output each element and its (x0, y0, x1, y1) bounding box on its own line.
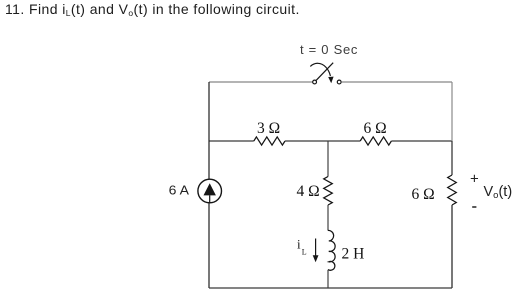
svg-text:i: i (297, 237, 301, 252)
switch S1 (310, 63, 341, 84)
svg-text:3 Ω: 3 Ω (257, 120, 280, 137)
wire left vertical lower (208, 203, 210, 288)
label 3 ohm (257, 120, 280, 137)
svg-text:L: L (302, 248, 307, 257)
resistor R2 6ohm (360, 137, 391, 145)
wire right vertical lower (451, 205, 453, 288)
svg-text:6 Ω: 6 Ω (364, 120, 387, 137)
label 2 H (342, 245, 365, 262)
wire middle vertical lower (327, 270, 329, 288)
wire bottom (209, 287, 452, 289)
switch blade (316, 63, 333, 81)
resistor R1 3ohm (254, 137, 285, 145)
svg-text:6 A: 6 A (169, 183, 190, 198)
svg-text:t = 0 Sec: t = 0 Sec (300, 42, 358, 57)
resistor R3 4ohm (324, 177, 333, 206)
label iL (297, 237, 307, 257)
label Vo(t) (484, 184, 513, 201)
wire second row middle (285, 140, 360, 142)
wire top-left segment (209, 81, 313, 83)
svg-text:11. Find iL(t) and Vo(t) in th: 11. Find iL(t) and Vo(t) in the followin… (5, 1, 300, 18)
label 4 ohm (297, 183, 320, 200)
switch left contact (313, 80, 317, 84)
label 6 ohm right (412, 186, 435, 203)
label minus sign (472, 206, 476, 208)
label 6 ohm top (364, 120, 387, 137)
switch right contact (337, 80, 341, 84)
wire middle vertical upper (327, 141, 329, 177)
wire middle vertical between resistor and inductor (327, 205, 329, 230)
switch closing arc arrow (310, 63, 330, 76)
wire right vertical upper (451, 82, 453, 175)
resistor R4 6ohm (448, 175, 457, 205)
label 6 A (169, 183, 190, 198)
current source I1 (198, 179, 222, 203)
wire top-right segment (341, 81, 452, 83)
svg-text:2 H: 2 H (342, 245, 365, 262)
svg-text:Vo(t): Vo(t) (484, 184, 513, 201)
current arrow iL (313, 239, 319, 263)
svg-text:+: + (470, 170, 479, 187)
label t = 0 Sec (300, 42, 358, 57)
wire second row right (391, 140, 452, 142)
wire second row left (209, 140, 254, 142)
svg-text:6 Ω: 6 Ω (412, 186, 435, 203)
wire left vertical upper (208, 82, 210, 179)
svg-text:4 Ω: 4 Ω (297, 183, 320, 200)
inductor L1 (328, 230, 335, 270)
label plus sign (470, 170, 479, 187)
